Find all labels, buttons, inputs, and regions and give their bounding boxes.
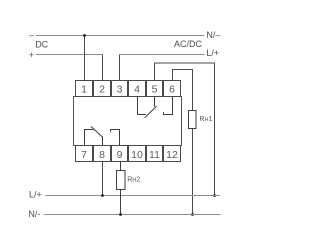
junction dot Rh1 wire on bottom N/- line bbox=[191, 213, 194, 216]
svg-text:9: 9 bbox=[117, 149, 123, 161]
svg-text:–: – bbox=[29, 30, 34, 40]
terminal 7 bbox=[76, 146, 93, 162]
junction dot terminal 8 wire on bottom L/+ line bbox=[101, 194, 104, 197]
wire: terminal 6 loop to Rh1 bbox=[173, 70, 193, 111]
svg-text:2: 2 bbox=[99, 84, 105, 96]
svg-text:5: 5 bbox=[152, 84, 158, 96]
relay contact K1: terminal 6 NC wire with tick bbox=[164, 97, 173, 115]
relay contact K2: terminal 7 fixed contact L-wire bbox=[85, 130, 94, 146]
terminal 10 bbox=[129, 146, 146, 162]
terminal 11 bbox=[147, 146, 163, 162]
svg-text:L/+: L/+ bbox=[206, 48, 219, 58]
svg-text:6: 6 bbox=[169, 84, 175, 96]
wire: Rh2 to bottom N/- line bbox=[120, 190, 122, 215]
wire: DC + drop into terminal 2 bbox=[102, 55, 104, 81]
relay contact K1: movable arm bbox=[145, 106, 157, 118]
wire: bottom L/+ supply line bbox=[45, 195, 220, 197]
terminal 1 bbox=[76, 81, 93, 97]
wire: terminal 9 to Rh2 bbox=[120, 162, 122, 171]
svg-text:11: 11 bbox=[149, 149, 160, 161]
terminal 2 bbox=[94, 81, 111, 97]
junction dot Rh2 wire on bottom N/- line bbox=[119, 213, 122, 216]
svg-text:7: 7 bbox=[81, 149, 87, 161]
svg-text:N/-: N/- bbox=[28, 209, 40, 219]
wire: DC + line bbox=[36, 54, 103, 56]
wire: terminal 8 drop to bottom L/+ line bbox=[102, 162, 104, 196]
wire: L/+ top supply line bbox=[120, 54, 205, 56]
wire: Rh1 to bottom N/- line bbox=[192, 129, 194, 215]
svg-text:10: 10 bbox=[131, 149, 143, 161]
svg-text:3: 3 bbox=[117, 84, 123, 96]
resistor Rh1 bbox=[189, 111, 197, 129]
relay contact K1: terminal 4 fixed contact L-wire bbox=[138, 97, 146, 115]
svg-text:8: 8 bbox=[99, 149, 105, 161]
svg-text:1: 1 bbox=[81, 84, 87, 96]
svg-text:N/–: N/– bbox=[206, 30, 220, 40]
resistor Rh2 bbox=[117, 171, 126, 190]
svg-text:RH1: RH1 bbox=[199, 114, 212, 123]
svg-text:12: 12 bbox=[166, 149, 178, 161]
svg-text:AC/DC: AC/DC bbox=[174, 39, 203, 49]
relay contact K1: terminal 5 common wire bbox=[154, 97, 156, 107]
relay contact K2: terminal 8 common wire bbox=[102, 137, 104, 146]
svg-text:L/+: L/+ bbox=[29, 190, 42, 200]
junction dot terminal 5 wire on bottom L/+ line bbox=[213, 194, 216, 197]
device body bbox=[74, 97, 182, 146]
wire: terminal 1 drop from N/- line bbox=[84, 36, 86, 81]
terminal 6 bbox=[164, 81, 181, 97]
terminal 3 bbox=[112, 81, 128, 97]
svg-text:4: 4 bbox=[134, 84, 140, 96]
svg-text:+: + bbox=[29, 50, 34, 60]
relay contact K2: terminal 9 NC wire with tick bbox=[111, 130, 120, 146]
wire: bottom N/- supply line bbox=[44, 214, 221, 216]
wire: L/+ drop into terminal 3 bbox=[119, 55, 121, 81]
wire: N/- top supply line bbox=[36, 35, 205, 37]
junction dot on N/- line at terminal 1 wire bbox=[83, 34, 86, 37]
terminal 8 bbox=[94, 146, 111, 162]
terminal 12 bbox=[164, 146, 181, 162]
terminal 9 bbox=[112, 146, 128, 162]
svg-text:DC: DC bbox=[35, 40, 48, 50]
terminal 5 bbox=[147, 81, 163, 97]
terminal 4 bbox=[129, 81, 146, 97]
relay contact K2: movable arm bbox=[91, 126, 103, 137]
wire: terminal 5 loop to right-side vertical bbox=[155, 63, 215, 196]
svg-text:RH2: RH2 bbox=[127, 175, 140, 184]
